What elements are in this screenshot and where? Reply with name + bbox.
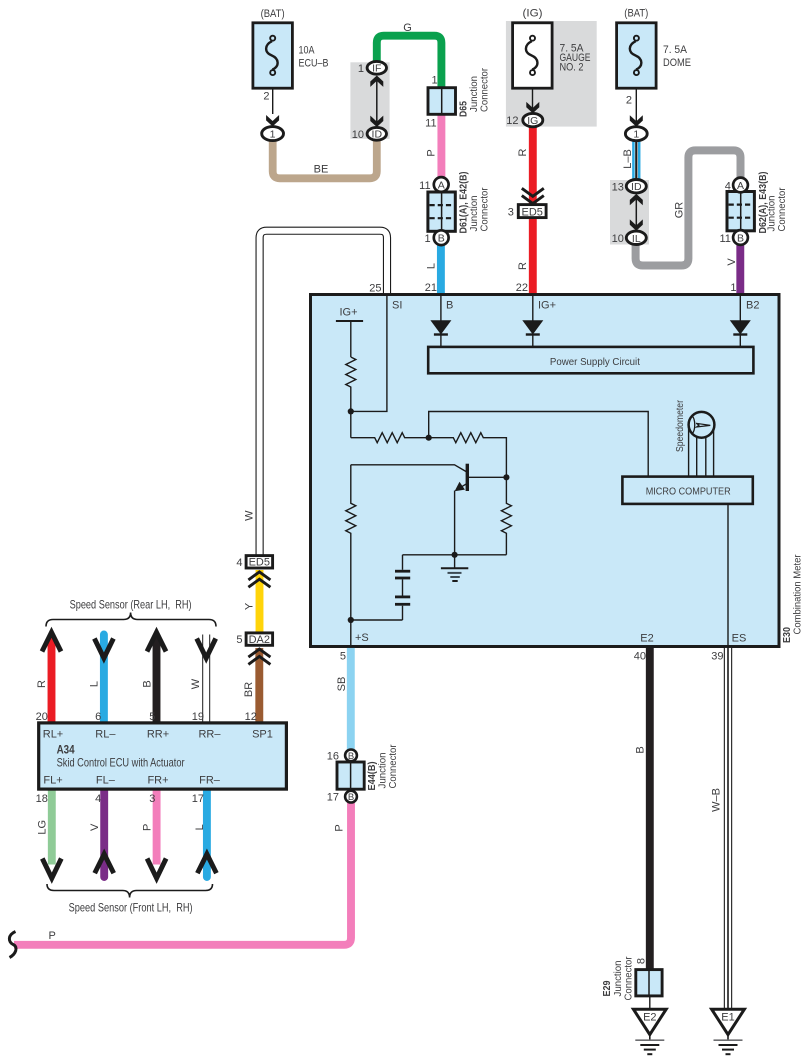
shield arrows below ED5 left — [248, 572, 270, 587]
transistor Q1 — [351, 464, 507, 555]
ECU A34 Skid Control box — [39, 723, 287, 789]
svg-text:Speed Sensor (Rear LH, RH): Speed Sensor (Rear LH, RH) — [70, 598, 192, 612]
svg-text:MICRO COMPUTER: MICRO COMPUTER — [646, 487, 731, 498]
svg-text:IG+: IG+ — [538, 300, 556, 312]
wire B black sensor RR+ — [153, 637, 161, 723]
svg-text:4: 4 — [725, 180, 731, 192]
svg-text:12: 12 — [506, 115, 518, 127]
svg-text:NO. 2: NO. 2 — [560, 62, 584, 74]
svg-text:12: 12 — [245, 711, 257, 723]
svg-text:1: 1 — [270, 129, 276, 141]
svg-text:V: V — [726, 258, 738, 266]
svg-text:ECU–B: ECU–B — [299, 58, 329, 70]
node junction dot B — [426, 435, 432, 441]
svg-text:FR–: FR– — [199, 775, 221, 787]
resistor R5 vertical right — [501, 477, 511, 555]
svg-text:1: 1 — [358, 63, 364, 75]
svg-text:7. 5A: 7. 5A — [663, 44, 688, 56]
sensor arrow FR+ down — [147, 859, 166, 879]
wire G green from IF to D65 — [377, 36, 442, 89]
wire internal ES from micro computer to pin 39 — [727, 504, 729, 645]
svg-text:17: 17 — [192, 793, 204, 805]
svg-text:L: L — [426, 263, 438, 269]
junction connector D61(A), E42(B) — [428, 192, 455, 231]
svg-text:SP1: SP1 — [252, 729, 273, 741]
svg-text:FL–: FL– — [96, 775, 116, 787]
svg-text:IG+: IG+ — [340, 307, 358, 319]
svg-text:+S: +S — [355, 632, 369, 644]
node oval IF pin 1 — [367, 61, 386, 74]
svg-text:Connector: Connector — [387, 744, 399, 788]
svg-text:B: B — [348, 792, 354, 803]
sensor arrow FL+ down — [42, 859, 61, 879]
svg-text:10: 10 — [612, 233, 624, 245]
svg-text:IG: IG — [527, 115, 538, 127]
node oval 1 (DOME) — [625, 127, 647, 141]
wire E29 lead to ground E2 — [649, 995, 651, 1009]
svg-text:16: 16 — [327, 750, 339, 762]
wire P pink from E44 circle B down and left off page — [14, 801, 351, 945]
svg-text:SB: SB — [336, 677, 348, 692]
capacitor C1 — [395, 555, 410, 578]
junction connector D62(A), E43(B) — [727, 192, 754, 231]
svg-text:Connector: Connector — [776, 187, 788, 231]
svg-text:A34: A34 — [57, 743, 75, 757]
svg-text:L: L — [89, 681, 101, 687]
node circle A (D62) — [733, 178, 748, 193]
shield arrows above ED5 top — [522, 188, 544, 203]
svg-text:5: 5 — [340, 651, 346, 663]
shield connector DA2 (pin 5) — [246, 633, 273, 645]
svg-text:A: A — [438, 179, 445, 191]
svg-text:B2: B2 — [746, 300, 759, 312]
svg-text:Connector: Connector — [479, 187, 491, 231]
junction ID/IL double arrow — [630, 194, 643, 231]
svg-text:1: 1 — [730, 282, 736, 294]
junction IF/ID double arrow — [370, 76, 383, 128]
svg-text:P: P — [142, 824, 154, 831]
svg-text:18: 18 — [36, 793, 48, 805]
wire GR grey from IL to circle A of D62 — [636, 150, 741, 265]
diode D3 at pin 1 B2 — [730, 296, 751, 347]
svg-text:DOME: DOME — [663, 57, 691, 69]
wire SI internal from pin 25 — [351, 296, 387, 411]
sensor arrow RR- down — [197, 639, 216, 659]
svg-text:BE: BE — [314, 164, 329, 176]
junction connector E29 — [636, 970, 662, 996]
wire W-B white/black stripe from meter pin 39 ES to ground E1 — [724, 647, 732, 1009]
svg-text:5: 5 — [236, 634, 242, 646]
svg-text:10: 10 — [352, 129, 364, 141]
svg-text:22: 22 — [516, 282, 528, 294]
node oval 1 (ECU-B) — [262, 127, 284, 141]
svg-text:10A: 10A — [299, 45, 316, 57]
wire L blue sensor RL- — [100, 635, 108, 724]
svg-text:FL+: FL+ — [43, 775, 62, 787]
speedometer gauge icon — [689, 412, 715, 477]
fuse 7.5A GAUGE NO.2 — [513, 23, 553, 88]
sensor arrow RR+ up — [147, 632, 166, 651]
svg-text:Y: Y — [244, 602, 256, 610]
svg-text:IL: IL — [632, 233, 641, 245]
svg-text:GR: GR — [674, 202, 686, 219]
shield connector ED5 top (pin 3) — [518, 205, 546, 218]
svg-text:21: 21 — [425, 282, 437, 294]
node circle B (D61) — [434, 230, 449, 245]
wire P pink sensor FR+ — [153, 789, 161, 865]
svg-text:3: 3 — [508, 207, 514, 219]
box Power Supply Circuit — [428, 347, 753, 373]
svg-text:(BAT): (BAT) — [261, 8, 285, 20]
node oval IL pin 10 — [626, 231, 646, 244]
svg-text:25: 25 — [369, 282, 381, 294]
svg-text:ID: ID — [631, 181, 642, 193]
svg-text:6: 6 — [95, 711, 101, 723]
svg-text:RL–: RL– — [95, 729, 116, 741]
node circle B pin 17 (E44) — [345, 791, 357, 803]
wire W white sensor RR- — [202, 634, 210, 724]
fuse 7.5A DOME — [617, 23, 657, 88]
junction block ID/IL grey box — [610, 180, 649, 245]
node junction dot C collector — [503, 474, 509, 480]
svg-text:W–B: W–B — [711, 788, 723, 812]
svg-text:8: 8 — [636, 958, 648, 964]
combination meter E30 body fill — [311, 295, 780, 647]
svg-text:LG: LG — [36, 820, 48, 835]
node junction dot D emitter/ground — [452, 552, 458, 558]
node oval IG pin 12 — [523, 113, 543, 126]
svg-text:B: B — [438, 232, 445, 244]
svg-text:Speedometer: Speedometer — [674, 400, 686, 452]
svg-text:R: R — [36, 680, 48, 688]
capacitor C2 — [351, 579, 410, 620]
wire internal from dot B to micro computer — [429, 412, 649, 477]
svg-text:Connector: Connector — [623, 956, 635, 1000]
brace Speed Sensor front — [47, 884, 213, 898]
resistor R1 vertical below IG+ — [346, 357, 356, 411]
svg-text:5: 5 — [149, 711, 155, 723]
svg-text:IF: IF — [372, 63, 381, 75]
svg-text:P: P — [49, 930, 56, 942]
wire fuse DOME lead — [635, 75, 637, 127]
wire L-B blue/black stripe from oval 1 to ID — [633, 140, 639, 180]
wire SB sky blue from meter pin 5 to E44 circle B — [347, 647, 355, 751]
wire BE tan from oval 1 to junction ID — [273, 139, 377, 178]
svg-text:SI: SI — [392, 300, 402, 312]
svg-text:R: R — [517, 148, 529, 156]
svg-text:L: L — [194, 824, 206, 830]
node junction dot E at +S — [348, 617, 354, 623]
svg-text:RR–: RR– — [198, 729, 221, 741]
svg-text:B: B — [348, 751, 354, 762]
svg-text:B: B — [737, 232, 744, 244]
ground E2 triangle — [633, 1009, 666, 1054]
wire V violet from circle B to meter pin 1 — [736, 244, 744, 295]
sensor arrow RL+ up — [42, 632, 61, 651]
svg-text:B: B — [142, 680, 154, 687]
svg-text:ID: ID — [372, 129, 383, 141]
resistor R2 horizontal — [351, 433, 429, 443]
svg-text:P: P — [425, 149, 437, 156]
svg-text:(BAT): (BAT) — [624, 8, 648, 20]
svg-text:39: 39 — [711, 651, 723, 663]
wire R red from IG oval to ED5 — [529, 126, 537, 205]
wire P pink from D65 to circle A — [437, 114, 445, 179]
node circle B pin 16 (E44) — [345, 750, 357, 762]
junction connector D65 — [428, 88, 456, 115]
svg-text:DA2: DA2 — [249, 634, 270, 646]
svg-text:FR+: FR+ — [147, 775, 168, 787]
svg-text:13: 13 — [612, 181, 624, 193]
svg-text:19: 19 — [192, 711, 204, 723]
svg-text:1: 1 — [633, 129, 639, 141]
svg-text:P: P — [334, 824, 346, 831]
svg-text:E1: E1 — [721, 1012, 734, 1024]
svg-text:Speed Sensor (Front LH, RH): Speed Sensor (Front LH, RH) — [69, 901, 193, 915]
sensor arrow FR- up — [197, 854, 216, 873]
sensor arrow FL- up — [95, 854, 114, 873]
svg-text:A: A — [737, 180, 744, 192]
svg-text:2: 2 — [263, 91, 269, 103]
fuse 10A ECU-B — [253, 23, 293, 88]
wire fuse ECU-B lead — [272, 75, 274, 114]
node junction dot A — [348, 408, 354, 414]
svg-text:Skid Control ECU with Actuator: Skid Control ECU with Actuator — [57, 756, 185, 770]
wire internal dot A down — [350, 411, 352, 437]
junction block IF/ID grey box — [350, 62, 389, 139]
node circle A (D61) — [434, 177, 449, 192]
svg-text:4: 4 — [236, 557, 242, 569]
svg-text:R: R — [517, 262, 529, 270]
wire W white from ED5 up over to meter pin 25 — [260, 231, 387, 556]
wire R red sensor RL+ — [48, 637, 56, 723]
resistor R3 horizontal — [429, 433, 507, 478]
svg-text:17: 17 — [327, 792, 339, 804]
diode D2 at pin 22 — [522, 296, 543, 347]
arrow down into IG oval — [526, 102, 539, 113]
svg-text:E2: E2 — [643, 1012, 656, 1024]
wire break squiggle at pink wire end — [9, 932, 16, 958]
svg-text:4: 4 — [95, 793, 101, 805]
svg-text:ED5: ED5 — [249, 557, 270, 569]
power symbol IG+ internal — [336, 321, 363, 357]
wire fuse GAUGE lead — [532, 75, 534, 112]
shield connector ED5 left (pin 4) — [246, 556, 273, 568]
wire L blue from circle B to meter pin 21 — [437, 244, 445, 295]
svg-text:11: 11 — [419, 180, 430, 192]
combination meter E30 border overlay — [311, 295, 780, 647]
svg-text:ES: ES — [732, 633, 747, 645]
svg-text:11: 11 — [425, 118, 436, 130]
arrow down into node 1 (ECU-B) — [266, 115, 279, 126]
brace Speed Sensor rear — [46, 613, 216, 627]
svg-text:W: W — [190, 678, 202, 689]
svg-text:1: 1 — [431, 75, 437, 87]
svg-text:Combination Meter: Combination Meter — [792, 554, 804, 634]
svg-text:BR: BR — [243, 682, 255, 697]
node oval ID pin 13 — [626, 180, 646, 193]
svg-text:3: 3 — [149, 793, 155, 805]
svg-text:ED5: ED5 — [521, 206, 542, 218]
wire Y yellow from ED5 to DA2 — [256, 570, 264, 634]
svg-text:2: 2 — [626, 94, 632, 106]
svg-text:RL+: RL+ — [43, 729, 64, 741]
svg-text:RR+: RR+ — [147, 729, 169, 741]
wire R red from ED5 to meter pin 22 — [529, 217, 537, 295]
wire L blue sensor FR- — [203, 789, 211, 877]
wire internal +S down to pin 5 — [350, 620, 352, 645]
box MICRO COMPUTER — [622, 477, 752, 504]
svg-text:1: 1 — [424, 233, 430, 245]
arrow down into node 1 (DOME) — [630, 115, 643, 126]
ground symbol internal — [441, 555, 468, 581]
node oval ID pin 10 — [367, 127, 386, 140]
sensor arrow RL- down — [94, 639, 113, 659]
svg-text:E2: E2 — [640, 633, 653, 645]
wire B black from meter pin 40 E2 to E29 — [646, 647, 654, 970]
fuse GAUGE grey shaded box — [506, 21, 597, 127]
svg-text:(IG): (IG) — [523, 8, 543, 20]
svg-text:20: 20 — [36, 711, 48, 723]
wire V violet sensor FL- — [100, 789, 108, 877]
resistor R4 vertical left — [346, 465, 356, 620]
svg-text:B: B — [635, 746, 647, 753]
junction connector E44(B) — [337, 762, 364, 789]
svg-text:Connector: Connector — [479, 68, 491, 112]
ground E1 triangle — [712, 1009, 745, 1054]
shield arrows below DA2 — [248, 649, 270, 664]
svg-text:B: B — [446, 300, 453, 312]
wire internal bottom horizontal — [403, 554, 507, 556]
diode D1 at pin 21 — [430, 296, 451, 347]
svg-text:W: W — [244, 510, 256, 521]
svg-text:V: V — [89, 823, 101, 831]
svg-text:40: 40 — [634, 651, 646, 663]
node circle B (D62) — [733, 230, 748, 245]
svg-text:G: G — [403, 22, 412, 34]
svg-text:11: 11 — [719, 233, 730, 245]
wire BR brown from DA2 to A34 pin 12 SP1 — [255, 648, 263, 723]
svg-text:L–B: L–B — [622, 149, 634, 169]
wire LG light green sensor FL+ — [48, 789, 56, 865]
svg-text:Power Supply Circuit: Power Supply Circuit — [550, 356, 640, 368]
